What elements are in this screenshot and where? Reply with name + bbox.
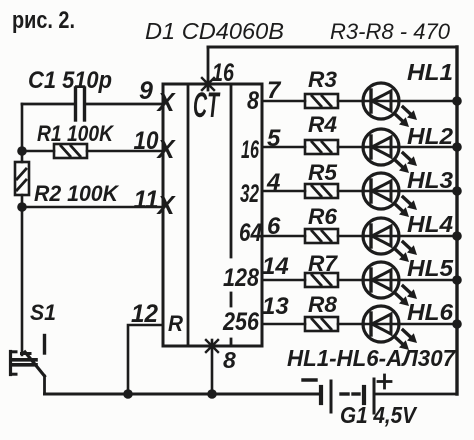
- wire pin11: [22, 206, 163, 209]
- LED HL1 emission arrows: [395, 107, 417, 127]
- LED HL3: [363, 173, 399, 209]
- wire LED HL1 to bus: [398, 100, 457, 103]
- pin 8 power mark: [206, 340, 218, 352]
- wire switch to bus: [43, 376, 46, 394]
- svg-text:9: 9: [139, 77, 153, 105]
- capacitor C1: [76, 88, 85, 120]
- junction node row 3: [452, 186, 462, 196]
- svg-text:S1: S1: [30, 300, 56, 325]
- svg-text:64: 64: [239, 219, 262, 247]
- wire top bus from pin16 to right bus: [208, 46, 457, 49]
- svg-text:X: X: [156, 134, 177, 164]
- pin label 6: [267, 213, 281, 240]
- IC output weight 128: [223, 264, 259, 292]
- resistor group label R3-R8 - 470: [330, 19, 451, 44]
- wire pin16 vertical: [207, 47, 210, 90]
- svg-text:HL6: HL6: [407, 299, 453, 325]
- resistor R7: [305, 273, 338, 287]
- wire right bus: [455, 47, 458, 394]
- label HL3: [407, 167, 453, 193]
- resistor R5: [305, 184, 338, 198]
- svg-text:R4: R4: [308, 112, 337, 137]
- wire R1 to pin10: [87, 150, 163, 153]
- svg-text:HL1: HL1: [407, 59, 453, 85]
- svg-text:R6: R6: [308, 204, 338, 229]
- label HL1-HL6-AL307: [287, 345, 456, 371]
- battery G1 cell1 long plate: [330, 381, 333, 412]
- pin label 5: [267, 125, 281, 152]
- node pin11 junction: [17, 202, 27, 212]
- wire left rail upper: [21, 104, 24, 162]
- svg-text:R3: R3: [308, 67, 337, 92]
- wire resistor to LED HL2: [338, 146, 364, 149]
- label S1: [30, 300, 56, 325]
- pin label 12: [131, 300, 158, 328]
- IC reset label R: [168, 311, 183, 336]
- LED HL3 emission arrows: [395, 197, 417, 217]
- LED HL1: [363, 83, 399, 119]
- battery dashes: [341, 392, 359, 395]
- label HL4: [407, 211, 453, 237]
- wire resistor to LED HL5: [338, 279, 364, 282]
- wire left rail lower: [21, 207, 24, 355]
- label R5: [308, 160, 338, 185]
- junction node row 6: [452, 319, 462, 329]
- battery G1 cell2 long plate: [373, 379, 376, 413]
- battery minus sign: [303, 378, 316, 381]
- wire LED HL6 to bus: [398, 323, 457, 326]
- pin label 4: [266, 169, 280, 196]
- resistor R2: [15, 162, 29, 195]
- IC D1 CD4060B body: [163, 84, 262, 346]
- IC input X mark 3: [156, 190, 177, 220]
- wire pin to resistor R5: [262, 190, 305, 193]
- resistor R6: [305, 229, 338, 243]
- svg-text:X: X: [156, 87, 177, 117]
- junction node row 4: [452, 231, 462, 241]
- wire LED HL4 to bus: [398, 235, 457, 238]
- label G1 4,5V: [340, 402, 417, 428]
- IC divider 2 upper: [230, 84, 233, 257]
- svg-text:R2 100K: R2 100K: [34, 181, 120, 206]
- pin label 9: [139, 77, 153, 105]
- label HL2: [407, 123, 453, 149]
- IC output weight 16: [241, 136, 260, 164]
- svg-text:32: 32: [240, 180, 259, 208]
- wire resistor to LED HL1: [338, 100, 364, 103]
- label R8: [308, 292, 338, 317]
- IC output weight 32: [240, 180, 259, 208]
- wire pin8: [211, 340, 214, 394]
- IC label D1 CD4060B: [145, 18, 284, 44]
- pin label 16: [212, 59, 235, 87]
- wire pin to resistor R7: [262, 279, 305, 282]
- LED HL6 emission arrows: [395, 330, 417, 350]
- IC divider 2 dash b: [230, 339, 233, 346]
- junction node row 5: [452, 275, 462, 285]
- svg-text:11: 11: [134, 186, 159, 214]
- svg-text:HL1-HL6-АЛ307: HL1-HL6-АЛ307: [287, 345, 456, 371]
- svg-text:10: 10: [134, 127, 159, 155]
- svg-text:R1 100K: R1 100K: [37, 121, 115, 146]
- pin label 13: [262, 293, 289, 320]
- wire pin to resistor R6: [262, 235, 305, 238]
- wire R1 left: [22, 150, 54, 153]
- pin label 11: [134, 186, 159, 214]
- svg-text:R7: R7: [308, 251, 339, 276]
- svg-text:D1 CD4060B: D1 CD4060B: [145, 18, 284, 44]
- IC output weight 64: [239, 219, 262, 247]
- pin label 7: [267, 77, 282, 104]
- svg-text:HL3: HL3: [407, 167, 453, 193]
- LED HL5: [363, 262, 399, 298]
- wire resistor to LED HL4: [338, 235, 364, 238]
- svg-text:16: 16: [241, 136, 260, 164]
- figure caption: [12, 7, 75, 34]
- svg-text:X: X: [156, 190, 177, 220]
- LED HL5 emission arrows: [395, 286, 417, 306]
- svg-text:рис. 2.: рис. 2.: [12, 7, 75, 34]
- IC input X mark 1: [156, 87, 177, 117]
- battery G1 cell2 short plate: [362, 387, 366, 403]
- label R2 100K: [34, 181, 120, 206]
- wire battery to right bus: [374, 393, 457, 396]
- IC divider 2 dash a: [230, 293, 233, 306]
- wire pin to resistor R8: [262, 323, 305, 326]
- IC output weight 8: [247, 87, 259, 115]
- label HL1: [407, 59, 453, 85]
- LED HL2: [363, 129, 399, 165]
- resistor R8: [305, 317, 338, 331]
- battery G1 cell1 short plate: [319, 387, 323, 403]
- wire left rail mid: [21, 195, 24, 207]
- label R3: [308, 67, 337, 92]
- wire resistor to LED HL6: [338, 323, 364, 326]
- svg-text:R3-R8 - 470: R3-R8 - 470: [330, 19, 451, 44]
- svg-text:13: 13: [262, 293, 289, 320]
- wire bottom bus: [45, 393, 321, 396]
- junction node row 2: [452, 142, 462, 152]
- svg-text:R8: R8: [308, 292, 338, 317]
- wire LED HL2 to bus: [398, 146, 457, 149]
- label HL5: [407, 255, 454, 281]
- pin 16 power mark: [202, 78, 214, 90]
- IC divider 1: [187, 84, 190, 346]
- svg-text:R5: R5: [308, 160, 338, 185]
- wire pin9 left segment: [22, 103, 74, 106]
- label R7: [308, 251, 339, 276]
- label HL6: [407, 299, 453, 325]
- svg-text:14: 14: [262, 253, 289, 280]
- LED HL4 emission arrows: [395, 242, 417, 262]
- junction node row 1: [452, 96, 462, 106]
- label C1 510p: [28, 67, 112, 94]
- wire pin to resistor R3: [262, 100, 305, 103]
- svg-text:12: 12: [131, 300, 158, 328]
- wire pin9 right segment: [86, 103, 163, 106]
- IC function label CT: [193, 86, 220, 125]
- resistor R3: [305, 94, 338, 108]
- LED HL2 emission arrows: [395, 153, 417, 173]
- resistor R1: [54, 144, 87, 158]
- label R1 100K: [37, 121, 115, 146]
- node pin12 junction: [123, 389, 133, 399]
- pin label 14: [262, 253, 289, 280]
- IC input X mark 2: [156, 134, 177, 164]
- switch S1: [11, 336, 45, 377]
- wire resistor to LED HL3: [338, 190, 364, 193]
- pin label 8: [223, 347, 236, 373]
- svg-text:G1 4,5V: G1 4,5V: [340, 402, 417, 428]
- label R6: [308, 204, 338, 229]
- svg-text:128: 128: [223, 264, 259, 292]
- wire pin12: [128, 325, 163, 394]
- wire pin to resistor R4: [262, 146, 305, 149]
- svg-text:256: 256: [222, 308, 260, 336]
- LED HL4: [363, 218, 399, 254]
- node R1 junction: [17, 146, 27, 156]
- svg-text:8: 8: [223, 347, 236, 373]
- IC output weight 256: [222, 308, 260, 336]
- svg-text:8: 8: [247, 87, 259, 115]
- battery plus sign: [378, 375, 391, 388]
- pin label 10: [134, 127, 159, 155]
- LED HL6: [363, 306, 399, 342]
- node pin8 junction: [207, 389, 217, 399]
- svg-text:C1 510p: C1 510p: [28, 67, 112, 94]
- wire LED HL3 to bus: [398, 190, 457, 193]
- svg-text:HL5: HL5: [407, 255, 454, 281]
- svg-text:CT: CT: [193, 86, 220, 125]
- label R4: [308, 112, 337, 137]
- resistor R4: [305, 140, 338, 154]
- svg-text:HL2: HL2: [407, 123, 453, 149]
- wire LED HL5 to bus: [398, 279, 457, 282]
- svg-text:HL4: HL4: [407, 211, 453, 237]
- svg-text:R: R: [168, 311, 183, 336]
